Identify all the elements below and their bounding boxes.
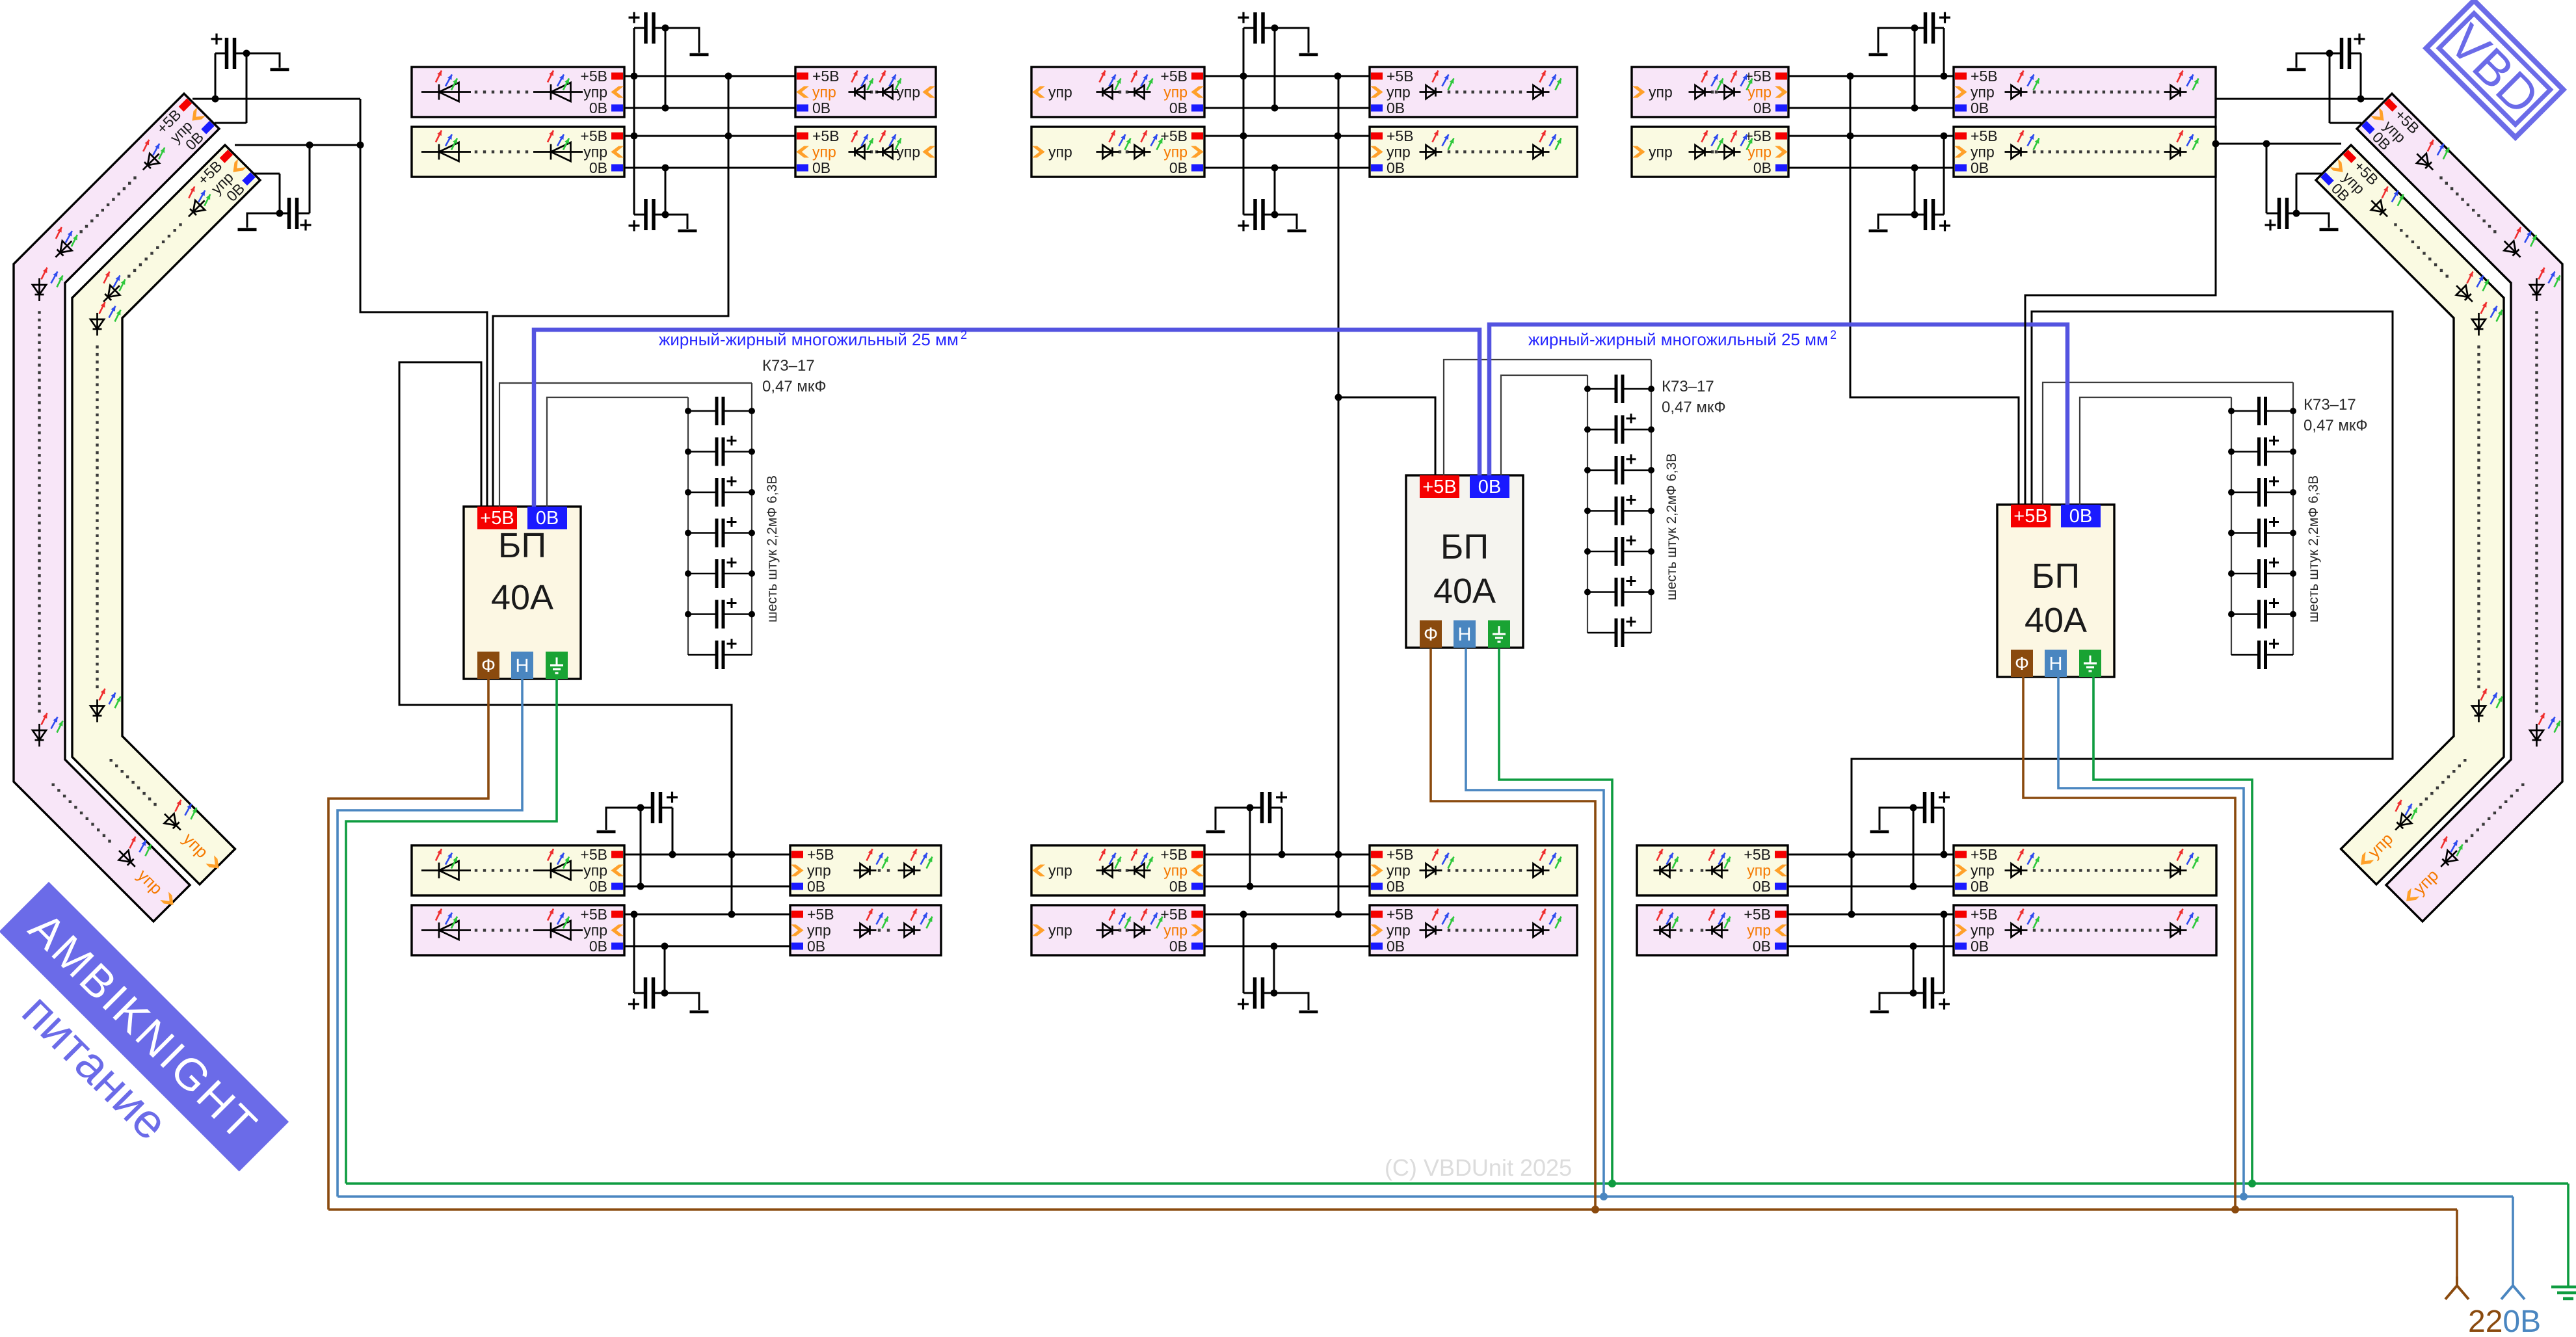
svg-text:0В: 0В [1971,938,1989,955]
svg-text:2: 2 [961,328,967,341]
svg-text:+5В: +5В [580,906,607,923]
svg-text:0В: 0В [1169,159,1188,176]
svg-text:К73–17: К73–17 [762,357,815,375]
svg-text:0В: 0В [1753,99,1772,116]
svg-text:Ф: Ф [481,655,496,676]
svg-text:+5В: +5В [1971,127,1998,144]
svg-text:+5В: +5В [1160,68,1188,85]
svg-text:упр: упр [812,144,836,161]
svg-text:+5В: +5В [1744,846,1771,863]
svg-text:упр: упр [1387,862,1411,879]
svg-text:+5В: +5В [1387,846,1414,863]
svg-text:Н: Н [1458,624,1472,645]
svg-text:упр: упр [583,922,607,939]
svg-text:БП: БП [498,526,546,565]
svg-text:40А: 40А [1433,572,1496,611]
svg-text:0В: 0В [807,878,825,895]
svg-text:40А: 40А [2025,601,2087,640]
svg-text:0В: 0В [2069,506,2092,527]
svg-text:упр: упр [1163,922,1188,939]
svg-text:упр: упр [1048,84,1072,101]
svg-text:0В: 0В [1478,477,1501,497]
svg-text:упр: упр [1649,144,1673,161]
svg-text:0В: 0В [812,159,830,176]
svg-text:упр: упр [1971,922,1995,939]
svg-text:упр: упр [807,862,831,879]
svg-text:0В: 0В [1387,938,1405,955]
svg-text:упр: упр [1387,144,1411,161]
svg-text:упр: упр [807,922,831,939]
svg-text:шесть штук 2,2мФ 6,3В: шесть штук 2,2мФ 6,3В [2306,475,2321,622]
svg-text:+5В: +5В [1387,68,1414,85]
svg-text:упр: упр [1971,84,1995,101]
svg-text:+5В: +5В [1387,906,1414,923]
svg-text:шесть штук 2,2мФ 6,3В: шесть штук 2,2мФ 6,3В [765,475,780,622]
svg-text:упр: упр [1971,144,1995,161]
svg-text:+5В: +5В [1387,127,1414,144]
svg-text:шесть штук 2,2мФ 6,3В: шесть штук 2,2мФ 6,3В [1664,453,1679,600]
svg-text:упр: упр [896,84,920,101]
svg-text:+5В: +5В [812,127,840,144]
svg-text:упр: упр [1048,922,1072,939]
svg-text:+5В: +5В [807,906,834,923]
svg-text:упр: упр [1163,862,1188,879]
svg-text:+5В: +5В [1744,906,1771,923]
svg-text:0,47 мкФ: 0,47 мкФ [762,378,827,395]
svg-text:упр: упр [1747,144,1772,161]
svg-text:0В: 0В [589,159,607,176]
svg-text:0В: 0В [812,99,830,116]
svg-text:упр: упр [1163,144,1188,161]
svg-text:упр: упр [1747,862,1771,879]
svg-text:+5В: +5В [1971,68,1998,85]
svg-text:жирный-жирный многожильный 25: жирный-жирный многожильный 25 мм [659,330,959,349]
svg-text:0В: 0В [589,938,607,955]
svg-text:упр: упр [1747,922,1771,939]
svg-text:упр: упр [812,84,836,101]
svg-text:жирный-жирный многожильный 25: жирный-жирный многожильный 25 мм [1528,330,1828,349]
svg-text:упр: упр [1747,84,1772,101]
svg-text:0В: 0В [1753,938,1771,955]
svg-text:0В: 0В [1169,938,1188,955]
svg-text:40А: 40А [491,578,553,617]
svg-text:+5В: +5В [580,127,607,144]
svg-text:упр: упр [1048,862,1072,879]
svg-text:упр: упр [583,84,607,101]
svg-text:упр: упр [1048,144,1072,161]
svg-text:0В: 0В [1753,159,1772,176]
svg-text:0В: 0В [807,938,825,955]
svg-text:0В: 0В [1971,878,1989,895]
svg-text:упр: упр [1163,84,1188,101]
svg-text:0В: 0В [1971,159,1989,176]
svg-text:0В: 0В [1971,99,1989,116]
svg-text:упр: упр [1387,84,1411,101]
svg-text:упр: упр [583,862,607,879]
svg-text:0В: 0В [1387,878,1405,895]
svg-text:БП: БП [1441,527,1489,566]
svg-text:+5В: +5В [1422,477,1456,497]
svg-text:упр: упр [1649,84,1673,101]
svg-text:упр: упр [583,144,607,161]
svg-text:Ф: Ф [2015,654,2029,674]
svg-text:упр: упр [1971,862,1995,879]
svg-text:2: 2 [1830,328,1837,341]
svg-text:упр: упр [896,144,920,161]
svg-text:Ф: Ф [1424,624,1438,645]
svg-text:0,47 мкФ: 0,47 мкФ [1662,399,1726,416]
svg-text:+5В: +5В [812,68,840,85]
svg-text:0В: 0В [1169,99,1188,116]
svg-text:+5В: +5В [580,68,607,85]
svg-text:+5В: +5В [580,846,607,863]
svg-text:0В: 0В [1387,159,1405,176]
svg-text:+5В: +5В [807,846,834,863]
svg-text:Н: Н [2049,654,2063,674]
svg-text:0В: 0В [1387,99,1405,116]
svg-text:БП: БП [2032,557,2080,596]
svg-text:0,47 мкФ: 0,47 мкФ [2304,417,2368,434]
svg-text:0В: 0В [589,99,607,116]
svg-text:упр: упр [1387,922,1411,939]
svg-text:+5В: +5В [1160,127,1188,144]
svg-text:К73–17: К73–17 [1662,378,1714,395]
svg-text:К73–17: К73–17 [2304,396,2356,414]
svg-text:0В: 0В [1169,878,1188,895]
svg-text:+5В: +5В [1160,846,1188,863]
svg-text:Н: Н [516,655,529,676]
svg-text:0В: 0В [1753,878,1771,895]
svg-text:(C) VBDUnit 2025: (C) VBDUnit 2025 [1385,1154,1572,1181]
svg-text:+5В: +5В [1160,906,1188,923]
svg-text:220В: 220В [2468,1304,2541,1334]
svg-text:0В: 0В [589,878,607,895]
svg-text:+5В: +5В [1971,846,1998,863]
svg-text:+5В: +5В [2013,506,2047,527]
svg-text:+5В: +5В [1971,906,1998,923]
